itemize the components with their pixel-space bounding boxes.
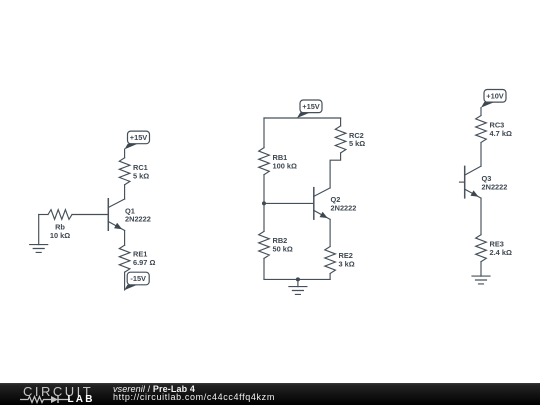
svg-text:+15V: +15V — [302, 102, 320, 111]
power flag +15V (middle circuit) — [297, 100, 322, 118]
footer url text — [113, 392, 275, 402]
svg-text:4.7 kΩ: 4.7 kΩ — [490, 129, 512, 138]
wire: RE3 to ground — [480, 262, 482, 276]
svg-text:6.97 Ω: 6.97 Ω — [133, 258, 155, 267]
wire: node to Q2 base — [264, 202, 314, 204]
wire: Rb to Q1 base — [72, 214, 108, 216]
wire: flag to RC3 — [480, 108, 482, 116]
svg-text:50 kΩ: 50 kΩ — [273, 245, 293, 254]
node: base divider junction — [262, 201, 266, 205]
svg-text:100 kΩ: 100 kΩ — [273, 162, 297, 171]
wire: node to RB2 — [263, 203, 265, 231]
ground symbol (left circuit, base return) — [30, 215, 48, 253]
resistor Rb 10 k (horizontal) — [48, 210, 72, 240]
wire: rail to RC2 — [340, 118, 342, 126]
svg-text:3 kΩ: 3 kΩ — [339, 259, 355, 268]
svg-text:2.4 kΩ: 2.4 kΩ — [490, 248, 512, 257]
svg-text:2N2222: 2N2222 — [125, 215, 151, 224]
svg-text:5 kΩ: 5 kΩ — [133, 172, 149, 181]
footer title text — [113, 384, 195, 394]
resistor RC2 5 k — [335, 126, 365, 153]
power flag -15V (left circuit) — [124, 272, 149, 290]
wire: RB1 to base node — [263, 175, 265, 204]
wire: RB2 bottom lead — [263, 258, 265, 279]
node: bottom rail ground junction — [296, 277, 300, 281]
wire: middle top rail — [264, 117, 341, 119]
svg-text:+15V: +15V — [130, 133, 148, 142]
svg-text:2N2222: 2N2222 — [482, 182, 508, 191]
wire: rail to RB1 — [263, 118, 265, 148]
transistor Q1 2N2222 — [108, 198, 151, 231]
power flag +10V (right circuit) — [481, 90, 506, 108]
transistor Q2 2N2222 — [314, 187, 357, 220]
resistor RB1 100 k — [259, 148, 297, 175]
ground symbol (middle circuit) — [289, 279, 307, 294]
CircuitLab logo — [23, 384, 93, 399]
resistor RB2 50 k — [259, 231, 293, 258]
wire: ground to Rb — [39, 214, 48, 216]
wire: RE2 to bottom rail — [329, 274, 331, 280]
svg-text:2N2222: 2N2222 — [331, 204, 357, 213]
wire: Q2 collector to RC2 (with jog) — [330, 153, 341, 188]
wire: Q3 emitter to RE3 — [480, 198, 482, 235]
wire: RC1 to +15V flag — [124, 149, 126, 158]
power flag +15V (left circuit) — [125, 131, 150, 149]
wire: RE1 to -15V flag — [124, 272, 126, 290]
svg-text:+10V: +10V — [486, 91, 504, 100]
resistor RC1 5 k — [119, 158, 149, 185]
wire: RC3 to Q3 collector — [480, 143, 482, 167]
resistor RC3 4.7 k — [476, 116, 512, 143]
wire: Q1 collector to RC1 — [124, 185, 126, 199]
resistor RE2 3 k — [325, 247, 355, 274]
svg-text:-15V: -15V — [130, 274, 146, 283]
svg-text:10 kΩ: 10 kΩ — [50, 231, 70, 240]
resistor RE1 6.97 ohm — [119, 245, 155, 272]
wire: Q1 emitter to RE1 — [124, 231, 126, 246]
resistor RE3 2.4 k — [476, 235, 512, 262]
wire: bottom rail — [264, 278, 330, 280]
footer bar — [0, 383, 540, 405]
wire: Q2 emitter to RE2 — [329, 219, 331, 246]
ground symbol (right circuit) — [472, 276, 490, 284]
transistor Q3 2N2222 — [460, 166, 508, 199]
svg-text:5 kΩ: 5 kΩ — [349, 139, 365, 148]
